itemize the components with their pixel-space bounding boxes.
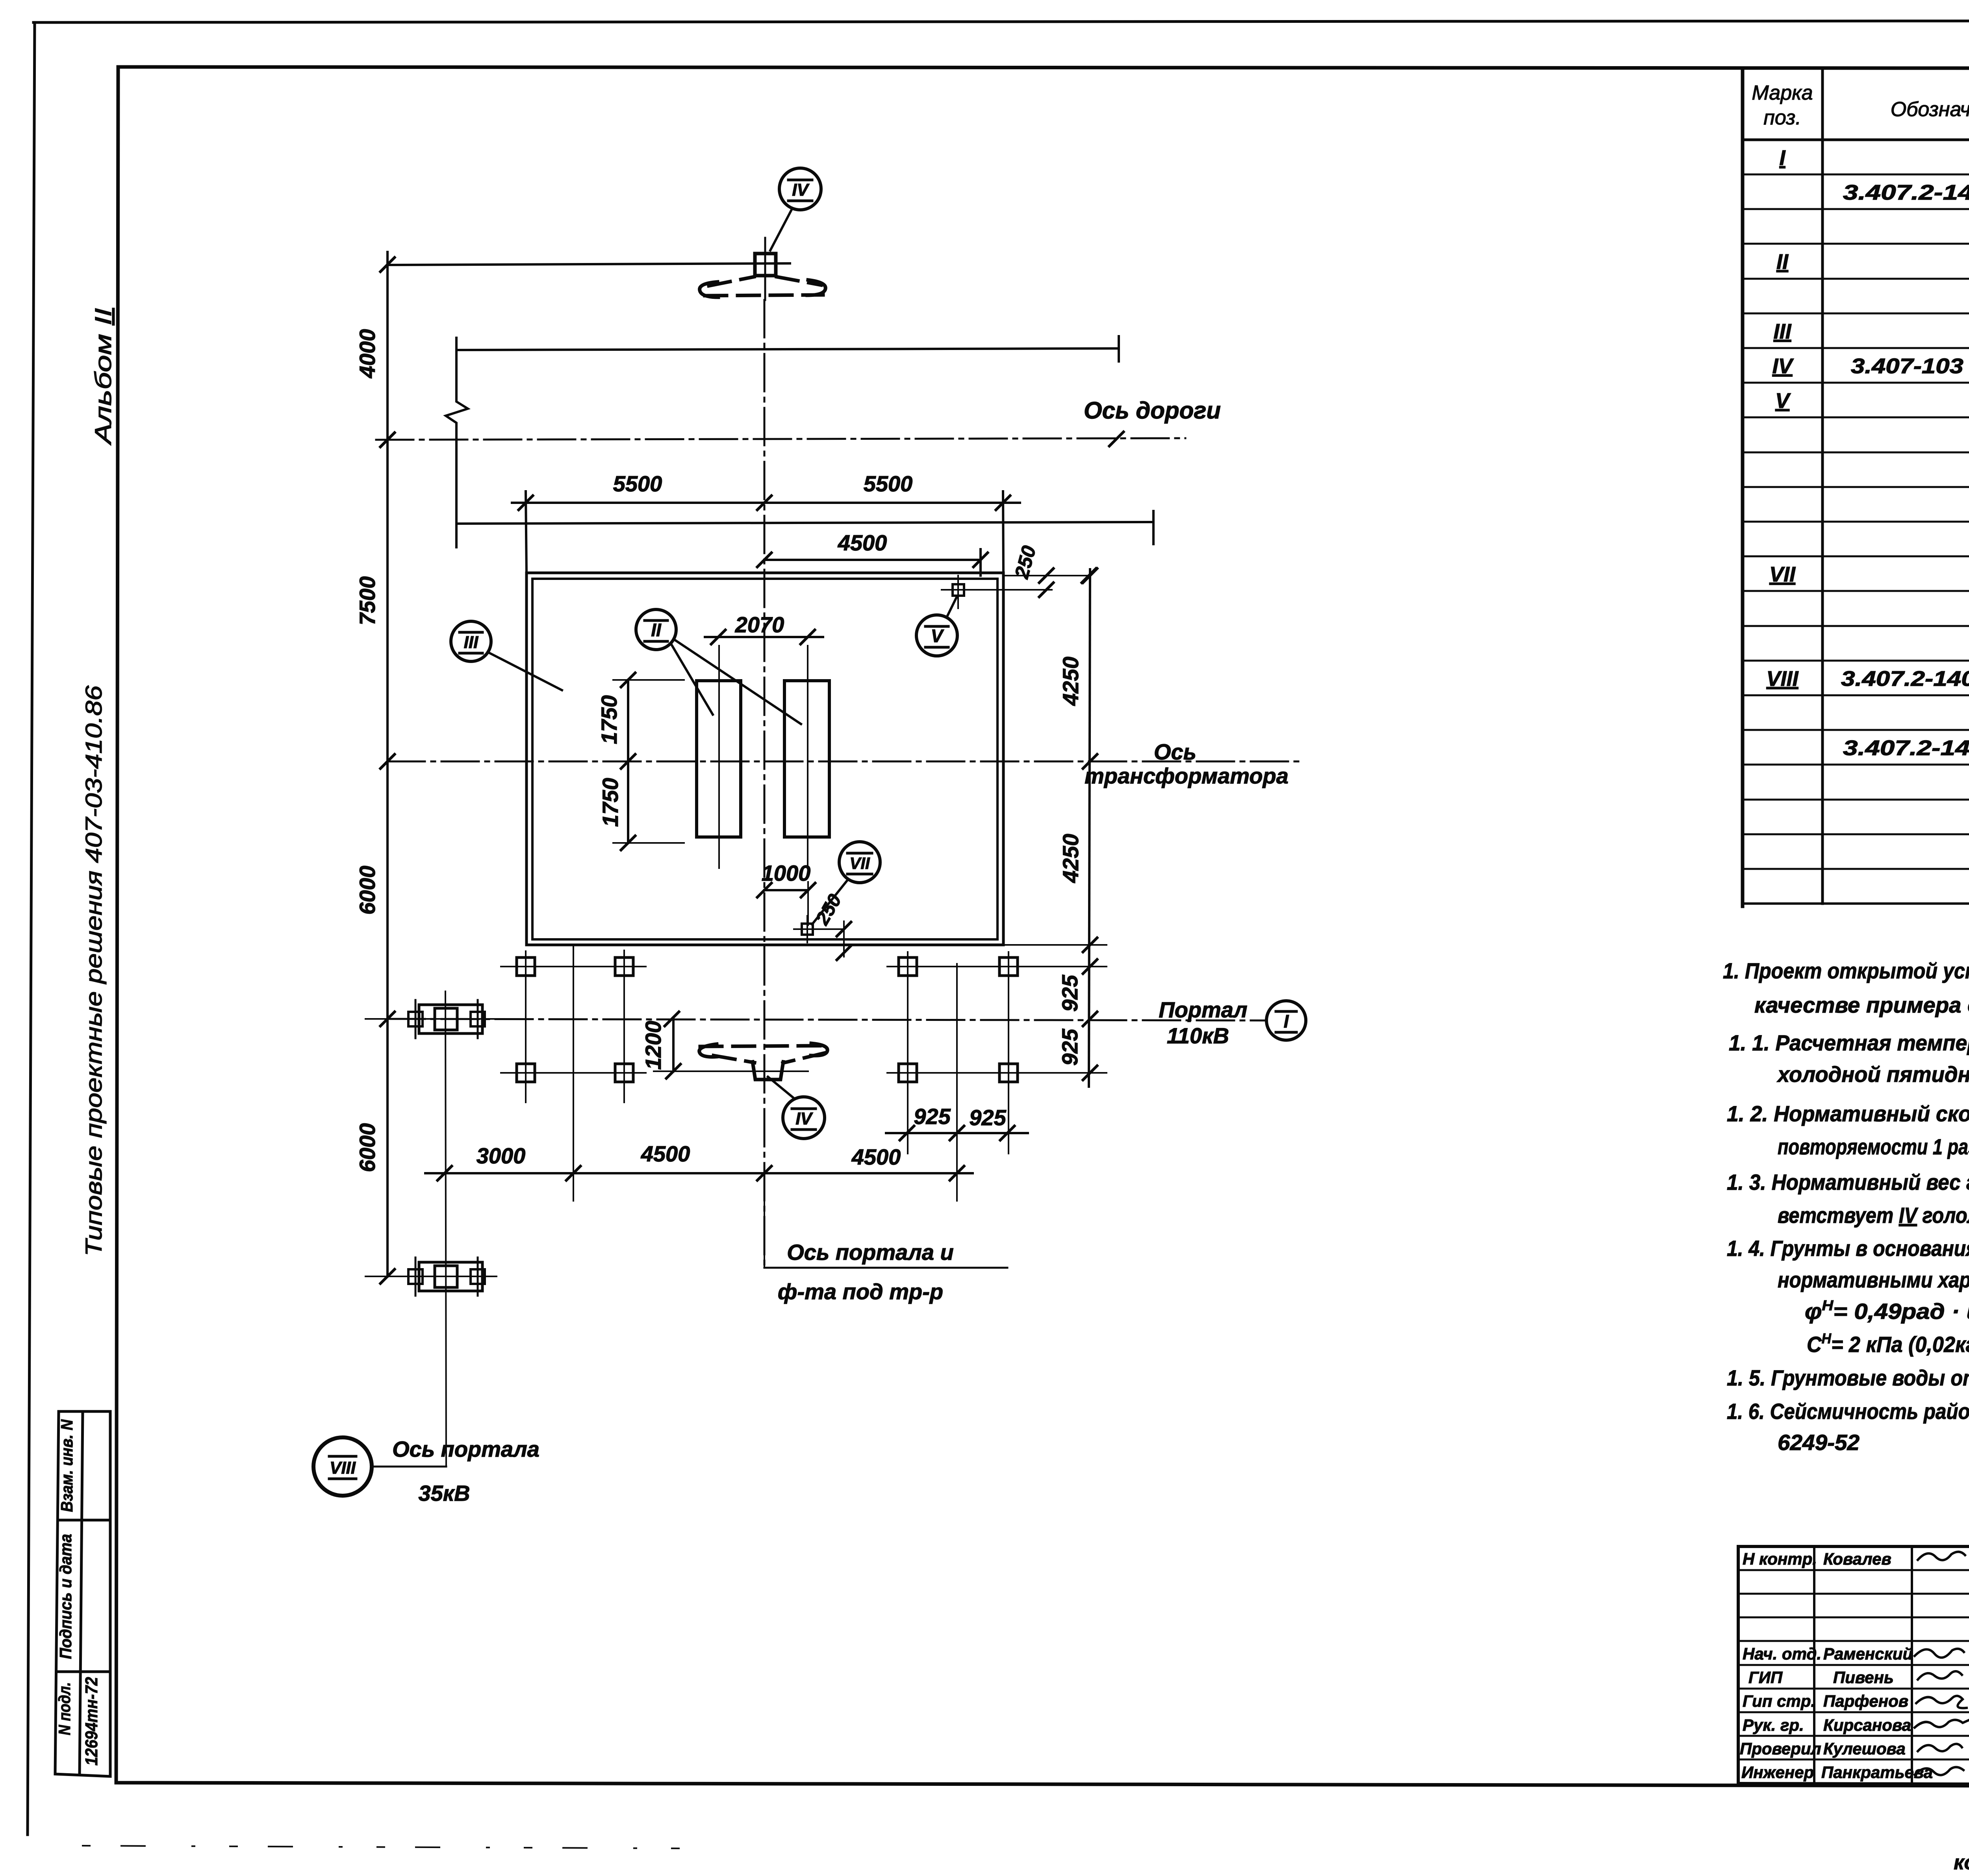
left dimension chain line — [386, 252, 389, 1276]
svg-text:повторяемости 1 раз в 10 ле: повторяемости 1 раз в 10 лет - 0,5 кПа (… — [1778, 1134, 1969, 1159]
svg-text:Ось портала: Ось портала — [392, 1437, 540, 1461]
outer border left — [28, 22, 35, 1835]
footing2 center square — [435, 1266, 457, 1287]
fence post A3 — [517, 1064, 535, 1082]
extension enclosure bottom to chain — [1003, 944, 1107, 946]
dim 4500 ticks — [757, 553, 771, 567]
anchor IV top wing left diagonal — [709, 277, 754, 286]
svg-text:3.407-103 в.2 л.17: 3.407-103 в.2 л.17 — [1851, 354, 1969, 378]
footing bolt line left — [415, 1000, 417, 1038]
svg-text:ветствует IV гололедному рай: ветствует IV гололедному району по ПУЭ-7… — [1778, 1203, 1969, 1228]
titleblock left — [1737, 1546, 1740, 1783]
road top edge end ticks — [455, 338, 458, 363]
callout circle IV top — [779, 168, 821, 210]
fence post A1 — [517, 957, 535, 976]
svg-text:Парфенов: Парфенов — [1823, 1692, 1908, 1710]
dim 3000+4500+4500 line — [425, 1172, 973, 1174]
row lines — [1743, 174, 1969, 176]
callout circle I — [1266, 1001, 1306, 1040]
callout circle V — [916, 615, 957, 656]
svg-text:ф-та под тр-р: ф-та под тр-р — [778, 1279, 943, 1304]
callout circle III — [451, 621, 491, 661]
footing2 side square right — [471, 1269, 485, 1284]
portal footing VIII on 35 axis: outer rect — [419, 1262, 482, 1291]
callout circle II — [636, 609, 676, 650]
footing side square right — [471, 1012, 485, 1026]
anchor IV top wing right cap — [807, 280, 825, 295]
svg-text:Пивень: Пивень — [1833, 1668, 1894, 1687]
svg-text:Альбом II: Альбом II — [91, 308, 116, 446]
svg-text:35кВ: 35кВ — [418, 1481, 470, 1506]
svg-text:IV: IV — [792, 180, 810, 200]
portal axis label vertical — [764, 1173, 765, 1268]
svg-text:925: 925 — [914, 1104, 951, 1129]
fence post A4 — [615, 1064, 633, 1082]
svg-text:φН= 0,49рад · или 28°,: φН= 0,49рад · или 28°, — [1805, 1297, 1969, 1324]
svg-text:Кирсанова: Кирсанова — [1823, 1716, 1911, 1734]
svg-text:1. 1. Расчетная температура: 1. 1. Расчетная температура наружного во… — [1729, 1030, 1969, 1055]
svg-text:II: II — [651, 620, 662, 640]
margin strip table — [55, 1411, 110, 1776]
svg-text:1000: 1000 — [762, 861, 811, 885]
fence right vertical 1 — [907, 952, 908, 1154]
svg-text:Обозначение: Обозначение — [1891, 98, 1969, 121]
footing2 bolt line right — [477, 1257, 479, 1296]
svg-text:N подл.: N подл. — [55, 1682, 74, 1735]
fence row2 line left section — [501, 1072, 646, 1074]
svg-text:3000: 3000 — [476, 1143, 526, 1168]
fence right middle axis — [956, 964, 958, 1201]
titleblock top — [1738, 1545, 1969, 1548]
leader II to rail2 — [675, 640, 801, 724]
SECTION: titleblock — [83, 1498, 1969, 1875]
svg-text:Подпись и дата: Подпись и дата — [56, 1534, 75, 1659]
svg-text:4000: 4000 — [355, 329, 380, 379]
tick road axis — [380, 433, 395, 447]
svg-text:Инженер: Инженер — [1741, 1763, 1814, 1782]
svg-text:4250: 4250 — [1058, 657, 1083, 706]
svg-text:Ось портала и: Ось портала и — [787, 1240, 954, 1265]
tick portal 110 axis — [380, 1012, 395, 1026]
SECTION: left margin — [55, 308, 116, 1777]
extension 1750 bottom — [613, 842, 684, 844]
dim 5500 ticks — [519, 496, 533, 510]
portal 35 axis vertical — [445, 991, 446, 1467]
tick portal 35 axis — [380, 1269, 395, 1283]
top extension line through anchor IV — [387, 263, 790, 265]
callout circle VIII — [313, 1437, 372, 1496]
leader IV bottom — [768, 1077, 795, 1099]
anchor IV top centerline — [764, 238, 766, 300]
oil catcher enclosure III outer — [527, 573, 1003, 945]
dim 2070 line — [705, 636, 823, 638]
dim 1200 line — [672, 1019, 675, 1071]
anchor IV top wing bottom dashed — [705, 295, 823, 296]
svg-text:нормативными характеристиками: нормативными характеристиками: — [1778, 1267, 1969, 1292]
svg-text:4500: 4500 — [851, 1144, 901, 1169]
svg-text:поз.: поз. — [1763, 106, 1801, 129]
road bottom edge — [456, 522, 1153, 524]
road axis tick left — [380, 433, 395, 447]
leader III — [488, 652, 562, 690]
svg-text:Портал: Портал — [1159, 997, 1247, 1022]
svg-text:3.407.2-140 .1 - 002: 3.407.2-140 .1 - 002 — [1841, 667, 1969, 691]
svg-text:Раменский: Раменский — [1823, 1645, 1913, 1663]
svg-text:V: V — [931, 626, 944, 646]
road bottom edge end tick — [1152, 511, 1155, 544]
SECTION: drawing — [313, 168, 1306, 1506]
leader V — [947, 596, 957, 617]
SECTION: spec table — [1743, 69, 1969, 906]
sig rows — [1738, 1569, 1969, 1571]
portal 110 axis dash-dot — [387, 1019, 1266, 1020]
transformer rail right — [784, 681, 829, 837]
svg-text:3.407.2-140 .3- .05: 3.407.2-140 .3- .05 — [1843, 736, 1969, 760]
anchor IV bottom wing right cap — [811, 1043, 827, 1056]
svg-text:Кулешова: Кулешова — [1823, 1739, 1906, 1758]
dim 4500 line — [764, 559, 981, 561]
svg-text:6000: 6000 — [355, 866, 380, 915]
leader VII — [812, 879, 848, 924]
tick portal axis right — [1083, 1012, 1097, 1026]
svg-text:Ковалев: Ковалев — [1823, 1550, 1891, 1568]
extension row1 to chain — [1028, 966, 1107, 967]
footing axis line — [365, 1018, 497, 1020]
fence left vertical 2 — [623, 950, 625, 1102]
svg-text:1. 2. Нормативный скоростной: 1. 2. Нормативный скоростной напор ветра… — [1727, 1101, 1969, 1126]
road axis dash-dot — [376, 438, 1185, 440]
anchor VII square — [802, 924, 813, 935]
tick enclosure bottom right — [1083, 938, 1097, 952]
right dimension chain line — [1089, 569, 1090, 1087]
svg-text:925: 925 — [1057, 974, 1082, 1011]
fence post B4 — [999, 1064, 1018, 1082]
footing bolt line right — [477, 1000, 479, 1038]
svg-text:холодной пятидневке — минус: холодной пятидневке — минус 40°С — [1776, 1062, 1969, 1087]
dim bottom ticks — [438, 1166, 452, 1180]
svg-text:Марка: Марка — [1752, 81, 1813, 104]
bottom scan noise dashes — [83, 1846, 693, 1848]
svg-text:Взам. инв. N: Взам. инв. N — [57, 1419, 76, 1512]
svg-text:Нач. отд.: Нач. отд. — [1743, 1645, 1821, 1663]
fence post B2 — [999, 957, 1018, 976]
svg-text:4500: 4500 — [838, 530, 887, 555]
dim 250 vii extension — [843, 921, 845, 957]
extension 1200 bottom — [654, 1070, 808, 1072]
svg-text:1750: 1750 — [598, 778, 623, 827]
extension for 4500 — [979, 549, 982, 576]
svg-text:5500: 5500 — [864, 471, 913, 496]
tick transformer axis — [380, 754, 395, 769]
table left edge — [1741, 69, 1745, 906]
fence left vertical 1 — [525, 951, 527, 1102]
tick enclosure top — [1083, 569, 1097, 583]
signature rows text — [1740, 1550, 1933, 1782]
fence post B3 — [899, 1064, 917, 1082]
dim 250 vii ticks — [837, 922, 851, 936]
anchor IV bottom stem — [753, 1062, 783, 1080]
svg-text:Н контр.: Н контр. — [1743, 1550, 1817, 1568]
dim 2070 ticks — [711, 630, 725, 644]
svg-text:250: 250 — [812, 891, 846, 929]
extension line left — [526, 491, 527, 573]
road axis tick right — [1109, 432, 1124, 446]
portal centerline dash-dot — [764, 300, 766, 1268]
svg-text:925: 925 — [969, 1105, 1006, 1130]
footing center square — [435, 1008, 457, 1030]
dim 5500+5500 line — [512, 502, 1020, 504]
sig col 2 — [1911, 1546, 1913, 1783]
dim 1000 ticks — [757, 883, 771, 897]
anchor VII cross h — [794, 928, 821, 930]
svg-text:Ось: Ось — [1154, 739, 1196, 764]
portal axis label line — [764, 1267, 1007, 1269]
tick top — [380, 257, 395, 272]
svg-text:Ось дороги: Ось дороги — [1084, 397, 1221, 424]
anchor VII cross v — [807, 916, 808, 943]
anchor IV top wing right diagonal — [777, 277, 821, 285]
leader II to rail1 — [671, 644, 713, 715]
dim 1750 ticks — [621, 673, 635, 687]
svg-text:II: II — [1776, 250, 1789, 274]
svg-text:VIII: VIII — [1766, 667, 1798, 691]
extension row2 to chain — [1028, 1072, 1107, 1074]
anchor V horizontal line — [942, 589, 1052, 591]
leader IV top — [770, 208, 792, 250]
svg-text:V: V — [1775, 389, 1791, 413]
dim 1750x2 line — [627, 680, 629, 843]
svg-text:VIII: VIII — [330, 1458, 356, 1478]
svg-text:СН= 2 кПа (0,02кгс/см²), Е=1: СН= 2 кПа (0,02кгс/см²), Е=14,7 мПа (150… — [1807, 1330, 1969, 1357]
svg-text:III: III — [464, 633, 478, 652]
svg-text:IV: IV — [795, 1109, 813, 1128]
svg-text:110кВ: 110кВ — [1167, 1023, 1229, 1048]
oil catcher enclosure III inner — [532, 579, 997, 939]
transformer rail left — [697, 681, 741, 837]
svg-text:I: I — [1284, 1011, 1289, 1032]
dim 1000 line — [764, 889, 808, 891]
svg-text:4250: 4250 — [1058, 834, 1083, 883]
callout circle VII — [839, 842, 880, 883]
fence right vertical 2 — [1008, 952, 1009, 1154]
svg-text:12694тн-72: 12694тн-72 — [82, 1677, 101, 1765]
svg-text:I: I — [1779, 146, 1785, 170]
svg-text:1200: 1200 — [641, 1021, 666, 1070]
road top edge — [456, 348, 1119, 350]
svg-text:5500: 5500 — [613, 471, 662, 496]
transformer axis dash-dot — [387, 761, 1303, 763]
anchor IV bottom wing top dashed — [700, 1046, 826, 1046]
svg-text:4500: 4500 — [641, 1141, 690, 1166]
rail right centerline — [807, 646, 808, 868]
fence row2 line right section — [887, 1072, 1032, 1074]
svg-text:Проверил: Проверил — [1740, 1739, 1821, 1758]
fence row1 line right section — [887, 966, 1032, 967]
titleblock bottom — [1738, 1783, 1969, 1785]
dim 250 ticks — [1039, 569, 1053, 583]
dim 1200 ticks — [665, 1012, 679, 1026]
dim 250 extension line — [1003, 575, 1090, 576]
svg-text:трансформатора: трансформатора — [1085, 763, 1289, 788]
tick transformer axis right — [1083, 754, 1097, 769]
svg-text:925: 925 — [1057, 1028, 1082, 1065]
anchor IV bottom wing left cap — [699, 1044, 717, 1057]
tick fence row1 right — [1083, 959, 1097, 974]
callout circle IV bottom — [783, 1097, 825, 1139]
svg-text:1. Проект открытой установк: 1. Проект открытой установки трансформат… — [1723, 958, 1969, 983]
svg-text:2070: 2070 — [735, 612, 784, 637]
leader line to VIII circle — [372, 1466, 446, 1468]
svg-text:качестве примера для следую: качестве примера для следующих условий: — [1754, 993, 1969, 1017]
anchor IV bottom wing left diagonal — [714, 1056, 755, 1063]
extension 1000 — [807, 882, 809, 925]
fence left middle axis — [573, 946, 574, 1201]
svg-text:1. 3. Нормативный вес голол: 1. 3. Нормативный вес гололеда принят по… — [1727, 1170, 1969, 1194]
fence row1 line left section — [501, 966, 646, 967]
fence post A2 — [615, 957, 633, 976]
table col line 1 — [1821, 69, 1824, 904]
svg-text:1. 5. Грунтовые воды отсутс: 1. 5. Грунтовые воды отсутствуют — [1727, 1365, 1969, 1390]
portal footing VIII on 110 axis: outer rect — [419, 1005, 482, 1033]
svg-text:копировал: копировал — [1954, 1851, 1969, 1874]
svg-text:7500: 7500 — [355, 576, 380, 626]
fence post B1 — [899, 957, 917, 976]
anchor IV bottom wing right diagonal — [783, 1053, 825, 1063]
svg-text:1750: 1750 — [597, 695, 621, 744]
anchor V centerline — [957, 576, 959, 608]
svg-text:Рук. гр.: Рук. гр. — [1743, 1716, 1804, 1734]
road left edge with break — [446, 350, 468, 547]
extension 1750 top — [613, 679, 684, 681]
extension line right — [1003, 491, 1003, 573]
svg-text:ГИП: ГИП — [1748, 1668, 1783, 1687]
svg-text:1. 6. Сейсмичность района с: 1. 6. Сейсмичность района строительства … — [1727, 1399, 1969, 1424]
svg-text:3.407.2-140 .3- 05: 3.407.2-140 .3- 05 — [1843, 181, 1969, 204]
anchor IV top square — [755, 254, 776, 276]
svg-text:Гип стр.: Гип стр. — [1743, 1692, 1815, 1710]
svg-text:IV: IV — [1772, 354, 1794, 378]
footing2 bolt line left — [415, 1257, 417, 1296]
outer border top — [33, 20, 1969, 22]
svg-text:III: III — [1773, 320, 1791, 343]
tick fence row2 right — [1083, 1066, 1097, 1080]
anchor V square — [953, 584, 964, 596]
svg-text:6000: 6000 — [355, 1123, 380, 1172]
sig col 1 — [1813, 1546, 1815, 1783]
dim 250 vii line — [813, 928, 844, 930]
rail left centerline — [718, 646, 720, 868]
anchor IV top wing left cap — [700, 282, 718, 297]
footing2 side square left — [408, 1269, 423, 1284]
table header bottom — [1743, 139, 1969, 141]
footing side square left — [408, 1012, 423, 1026]
dim 925 ticks — [900, 1126, 914, 1140]
footing2 axis line — [365, 1276, 497, 1277]
svg-text:VII: VII — [1769, 563, 1796, 586]
signature squiggles — [1915, 1552, 1969, 1775]
svg-text:6249-52: 6249-52 — [1778, 1430, 1860, 1455]
dim 925+925 line — [886, 1132, 1028, 1134]
svg-text:1. 4. Грунты в основаниях н: 1. 4. Грунты в основаниях не пучинистые … — [1727, 1236, 1969, 1261]
svg-text:VII: VII — [849, 854, 870, 872]
SECTION: notes — [1723, 958, 1969, 1455]
svg-text:Типовые проектные решения 4: Типовые проектные решения 407-03-410.86 — [81, 685, 107, 1256]
